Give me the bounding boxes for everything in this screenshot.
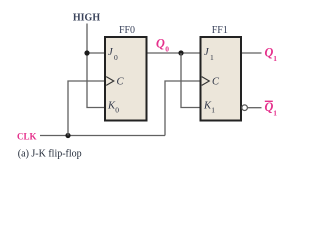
flip-flop FF1 body xyxy=(201,37,242,121)
svg-text:FF0: FF0 xyxy=(119,25,135,36)
svg-text:HIGH: HIGH xyxy=(73,13,100,24)
svg-text:0: 0 xyxy=(115,105,119,114)
svg-text:C: C xyxy=(212,76,220,87)
svg-text:C: C xyxy=(117,76,125,87)
wire Q0 output to J1 input xyxy=(147,52,202,54)
svg-text:(a) J-K flip-flop: (a) J-K flip-flop xyxy=(18,149,82,160)
svg-text:Q: Q xyxy=(265,46,274,60)
wire Q1 output xyxy=(242,52,262,54)
wire Q1-bar output xyxy=(247,107,261,109)
dynamic clock indicator FF1 xyxy=(202,77,210,86)
svg-text:Q: Q xyxy=(156,37,165,51)
flip-flop FF0 body xyxy=(105,37,147,121)
svg-text:1: 1 xyxy=(273,54,277,63)
dynamic clock indicator FF0 xyxy=(106,77,114,86)
svg-text:1: 1 xyxy=(273,109,277,118)
svg-text:CLK: CLK xyxy=(17,132,37,142)
junction dot at HIGH/J0 xyxy=(84,50,89,55)
wire HIGH vertical to K0 input xyxy=(87,24,106,108)
output bubble on Q1-bar xyxy=(242,105,248,111)
wire Q0 to K1 input xyxy=(181,53,201,108)
svg-text:FF1: FF1 xyxy=(212,25,228,36)
svg-text:Q: Q xyxy=(265,100,274,114)
svg-text:1: 1 xyxy=(210,53,214,62)
junction dot on CLK line xyxy=(65,133,70,138)
svg-text:0: 0 xyxy=(165,44,169,53)
junction dot on Q0 wire xyxy=(178,50,183,55)
svg-text:1: 1 xyxy=(211,105,215,114)
wire CLK horizontal xyxy=(40,135,165,137)
wire CLK to FF0 clock input C xyxy=(68,81,106,136)
wire J0 input xyxy=(87,52,106,54)
net label Q1-bar xyxy=(265,100,273,102)
svg-text:0: 0 xyxy=(114,53,118,62)
wire CLK to FF1 clock input C xyxy=(165,81,201,136)
